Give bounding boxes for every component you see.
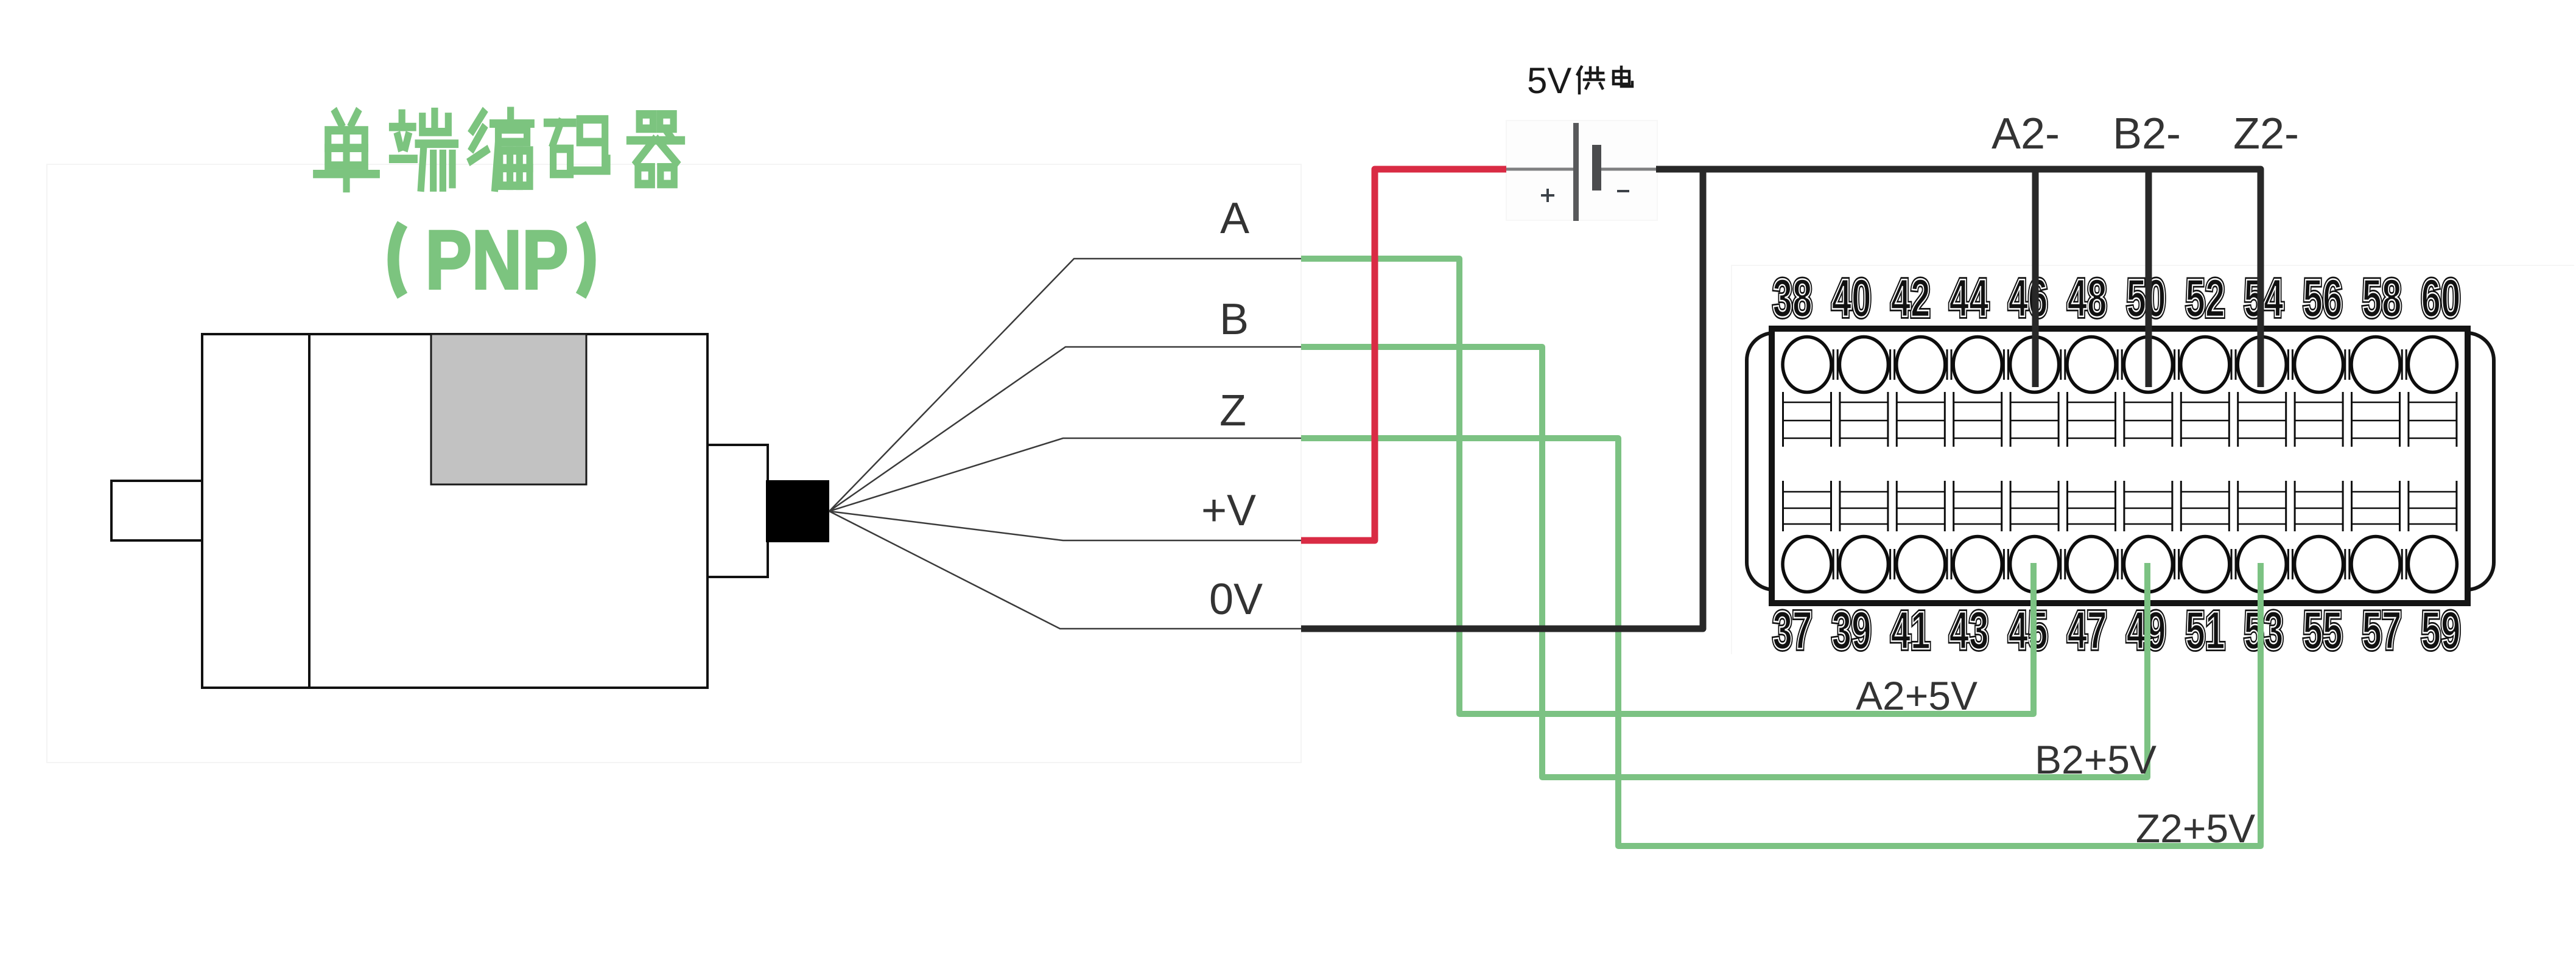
wire A2- drop — [2032, 169, 2039, 387]
svg-text:44: 44 — [1950, 268, 1989, 328]
svg-text:58: 58 — [2362, 268, 2402, 328]
battery long plate — [1573, 123, 1579, 221]
faint pasted-image border (terminal block drawing) — [1732, 265, 2574, 654]
svg-text:5V: 5V — [1527, 60, 1571, 101]
svg-text:46: 46 — [2009, 268, 2048, 328]
svg-text:Z2-: Z2- — [2233, 110, 2299, 158]
svg-text:43: 43 — [1950, 600, 1989, 660]
svg-text:41: 41 — [1891, 600, 1931, 660]
thin wire fan to Z — [829, 438, 1301, 511]
svg-text:42: 42 — [1891, 268, 1931, 328]
svg-text:37: 37 — [1773, 600, 1813, 660]
terminal contacts top row — [1783, 337, 2457, 393]
svg-text:51: 51 — [2186, 600, 2225, 660]
battery plus sign — [1541, 189, 1554, 202]
svg-text:59: 59 — [2421, 600, 2461, 660]
thin wire fan to A — [829, 259, 1301, 511]
svg-text:55: 55 — [2303, 600, 2343, 660]
ladder contacts top — [1783, 392, 2457, 447]
svg-text:PNP: PNP — [426, 214, 569, 307]
right fullwidth paren — [581, 224, 590, 296]
encoder body — [202, 334, 707, 688]
svg-text:47: 47 — [2068, 600, 2107, 660]
svg-text:+V: +V — [1201, 486, 1256, 535]
svg-text:A: A — [1220, 194, 1249, 243]
thin wire fan to +V — [829, 511, 1301, 540]
ladder contacts bottom — [1783, 481, 2457, 531]
svg-text:52: 52 — [2186, 268, 2225, 328]
encoder body divider — [308, 334, 311, 688]
wire B2- drop — [2146, 169, 2152, 387]
title line1 单端编码器 — [317, 111, 682, 188]
terminal contacts bottom row — [1783, 537, 2457, 592]
svg-text:B: B — [1220, 295, 1249, 344]
svg-text:57: 57 — [2362, 600, 2402, 660]
faint pasted-image border (encoder drawing) — [47, 164, 1301, 763]
wire +V red — [1301, 169, 1506, 540]
pin numbers bottom row — [1773, 600, 2461, 660]
svg-text:0V: 0V — [1209, 575, 1263, 624]
svg-text:B2+5V: B2+5V — [2035, 737, 2157, 782]
battery image backdrop — [1506, 121, 1657, 220]
neck links bottom row — [1833, 549, 2406, 579]
svg-text:38: 38 — [1773, 268, 1813, 328]
encoder gray block — [431, 334, 586, 484]
svg-text:40: 40 — [1832, 268, 1872, 328]
svg-text:A2-: A2- — [1992, 110, 2060, 158]
wire A green — [1301, 259, 2034, 714]
encoder cable connector — [766, 480, 829, 542]
encoder flange — [707, 445, 768, 577]
battery short plate — [1592, 145, 1601, 190]
svg-text:39: 39 — [1832, 600, 1872, 660]
svg-text:56: 56 — [2303, 268, 2343, 328]
svg-text:45: 45 — [2009, 600, 2048, 660]
battery lead right — [1601, 168, 1657, 171]
svg-text:Z: Z — [1220, 386, 1246, 435]
wire B green — [1301, 347, 2147, 777]
thin wire fan to B — [829, 347, 1301, 511]
wire battery minus bus — [1656, 169, 2261, 387]
svg-text:B2-: B2- — [2113, 110, 2181, 158]
battery minus sign — [1617, 190, 1629, 192]
wire Z green — [1301, 438, 2261, 846]
svg-text:48: 48 — [2068, 268, 2107, 328]
title line2 （PNP） — [426, 214, 569, 307]
svg-text:60: 60 — [2421, 268, 2461, 328]
encoder shaft — [111, 481, 202, 540]
wire 0V black — [1301, 169, 1703, 629]
svg-text:Z2+5V: Z2+5V — [2136, 806, 2255, 851]
neck links top row — [1833, 349, 2406, 380]
battery lead left — [1506, 168, 1573, 171]
left fullwidth paren — [393, 224, 402, 296]
terminal block inner frame — [1772, 329, 2468, 603]
svg-text:A2+5V: A2+5V — [1856, 673, 1978, 718]
pin numbers top row — [1773, 268, 2461, 328]
thin wire fan to 0V — [829, 511, 1301, 629]
terminal block outer shell — [1747, 333, 2494, 590]
